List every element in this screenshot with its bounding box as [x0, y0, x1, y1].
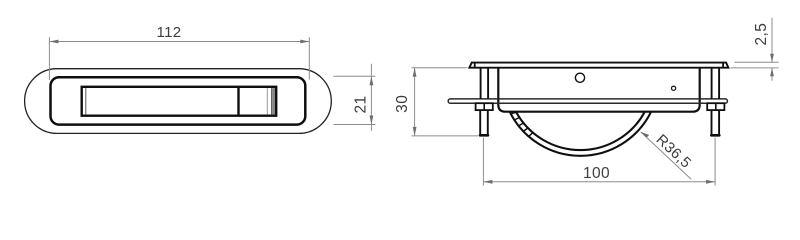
radius leader R36,5 [641, 132, 692, 179]
side view: left screw shaft [480, 68, 482, 99]
side view: flange end facets [474, 63, 476, 68]
side view: left nut [476, 103, 493, 110]
side view: section hatch ticks on bowl wall [511, 112, 533, 136]
side view: bowl inner arc R36.5 [516, 112, 645, 150]
svg-text:30: 30 [394, 95, 411, 113]
side view: mounting plate edge lines [448, 99, 727, 103]
front view: recess opening rectangle [82, 87, 277, 116]
side view: housing body with rounded bottom rim [498, 68, 699, 112]
dimension 112 extension lines [48, 37, 50, 80]
front view: outer profile stadium [25, 69, 332, 134]
svg-text:2,5: 2,5 [753, 23, 770, 46]
front view: recess right inner edge lines [266, 88, 268, 114]
dimension 2,5 extension lines [735, 61, 779, 63]
dimension 2,5 line [771, 18, 773, 62]
side view: right screw shaft [711, 68, 713, 99]
svg-text:112: 112 [156, 24, 181, 41]
side view: bowl outer arc [510, 112, 651, 156]
side view: right stud pin [711, 110, 713, 135]
dimension 21 line [370, 64, 372, 131]
side view: left stud pin [479, 110, 481, 135]
svg-text:21: 21 [352, 95, 369, 113]
side view: top flange [469, 63, 728, 68]
dimension 30 extension lines [412, 67, 468, 69]
front view: recess left inner edge line [85, 88, 87, 114]
side view: small pin hole [672, 86, 676, 90]
dimension 100 extension lines [482, 138, 484, 186]
side view: right nut [707, 103, 724, 110]
svg-text:100: 100 [583, 165, 610, 182]
front view: recess divider [237, 88, 239, 115]
dimension 112 line [49, 41, 309, 43]
dimension 21 extension lines [334, 75, 376, 77]
dimension 100 line [483, 181, 715, 183]
side view: large screw hole [575, 73, 584, 82]
front view: face plate rounded rectangle [51, 77, 306, 124]
dimension 30 line [414, 68, 416, 136]
